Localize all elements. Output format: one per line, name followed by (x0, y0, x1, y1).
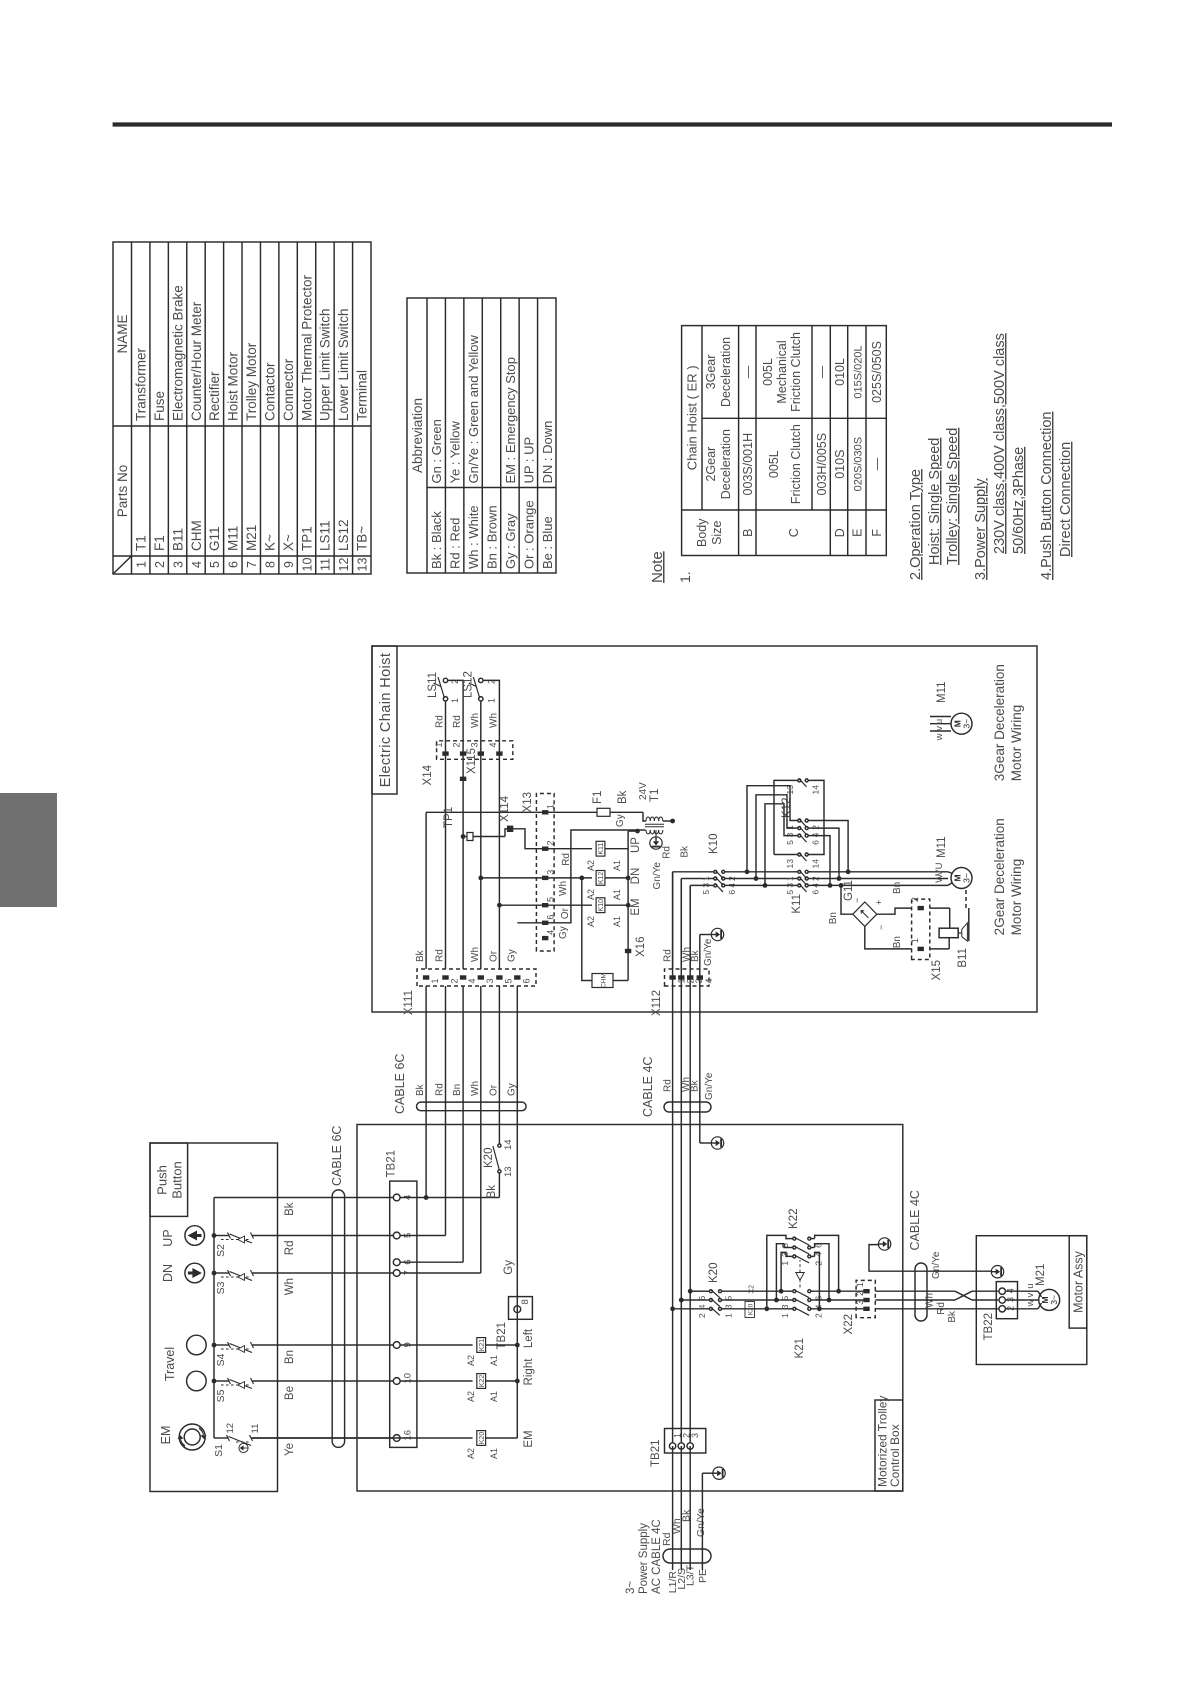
cable 6C capsule marker (332, 1190, 344, 1448)
transformer T1 (643, 812, 646, 821)
svg-text:W: W (934, 874, 945, 883)
svg-text:Rectifier: Rectifier (207, 371, 222, 421)
electric chain hoist enclosure box (372, 646, 1037, 1012)
svg-text:X13: X13 (522, 792, 534, 812)
wire Gy common return bus (516, 986, 518, 1438)
svg-text:Rd: Rd (435, 1083, 446, 1096)
svg-text:3: 3 (855, 1300, 865, 1305)
TB21 terminal 5 (393, 1232, 400, 1239)
svg-text:UP: UP (161, 1229, 175, 1246)
svg-text:A1: A1 (612, 916, 622, 927)
svg-text:Gn/Ye: Gn/Ye (652, 862, 663, 890)
svg-text:NAME: NAME (115, 314, 130, 353)
svg-text:50/60Hz,3Phase: 50/60Hz,3Phase (1011, 447, 1027, 554)
svg-text:Trolley: Single Speed: Trolley: Single Speed (945, 428, 961, 565)
svg-text:A1: A1 (612, 889, 622, 900)
svg-text:6: 6 (727, 890, 737, 895)
limit switch LS11 (443, 697, 447, 701)
svg-text:Parts No: Parts No (115, 465, 130, 518)
svg-text:2Gear Deceleration: 2Gear Deceleration (992, 818, 1007, 935)
svg-text:Bn: Bn (284, 1350, 296, 1364)
wire LS11 return (448, 680, 463, 969)
wire Rd TB21-5 to hoist X111-2 (400, 1235, 445, 1237)
svg-text:8: 8 (520, 1299, 531, 1304)
svg-text:2Gear: 2Gear (704, 447, 718, 482)
svg-text:Wh: Wh (470, 1081, 481, 1096)
wire GnYe to hoist ground (699, 935, 701, 987)
svg-text:Be: Be (284, 1386, 296, 1400)
svg-text:3~: 3~ (962, 873, 972, 883)
svg-text:1: 1 (855, 1282, 865, 1287)
svg-text:Deceleration: Deceleration (719, 337, 733, 407)
relay coil K22 (400, 1380, 473, 1382)
svg-text:3: 3 (780, 1304, 790, 1309)
svg-text:12: 12 (225, 1423, 236, 1434)
svg-text:C: C (787, 528, 801, 537)
svg-text:1: 1 (785, 876, 795, 881)
wire Wh TB21-7 to hoist X111-3 (400, 1272, 481, 1274)
wire L2 supply (680, 1446, 682, 1570)
svg-text:2: 2 (814, 1261, 824, 1266)
electromagnetic brake B11 (930, 948, 949, 950)
svg-text:Bn: Bn (892, 936, 903, 948)
svg-text:Right: Right (523, 1358, 535, 1386)
svg-text:Gy: Gy (506, 949, 517, 962)
svg-text:UP: UP (630, 837, 642, 853)
connector X16 pin (625, 949, 631, 953)
svg-text:4: 4 (190, 561, 204, 568)
wires X22 to trolley box bottom (875, 1308, 903, 1310)
svg-text:M11: M11 (226, 526, 241, 551)
svg-text:Wh: Wh (558, 881, 569, 896)
svg-text:Gn/Ye: Gn/Ye (703, 938, 714, 966)
svg-text:2.Operation Type: 2.Operation Type (908, 469, 924, 580)
svg-text:v: v (1025, 1293, 1036, 1298)
svg-text:DN : Down: DN : Down (540, 421, 555, 484)
svg-text:3Gear: 3Gear (704, 355, 718, 390)
svg-text:025S/050S: 025S/050S (870, 341, 884, 403)
svg-text:Deceleration: Deceleration (719, 429, 733, 499)
contactor K22 main contacts (789, 1255, 793, 1257)
svg-text:K20: K20 (483, 1148, 495, 1168)
svg-text:1: 1 (135, 561, 149, 568)
connector X14 (437, 741, 513, 760)
svg-text:v: v (934, 726, 945, 731)
TB21 terminal 10 (393, 1378, 400, 1385)
svg-text:010L: 010L (833, 358, 847, 386)
svg-text:1: 1 (546, 804, 556, 809)
svg-text:X114: X114 (499, 795, 511, 822)
ground hoist cable PE in trolley box (711, 1137, 723, 1149)
svg-text:2: 2 (452, 742, 462, 747)
svg-text:Travel: Travel (163, 1347, 177, 1381)
svg-text:4: 4 (811, 832, 821, 837)
wire Bk push button common (214, 1197, 278, 1199)
terminal strip TB22 (996, 1282, 1017, 1319)
svg-text:Gy : Gray: Gy : Gray (503, 513, 518, 569)
svg-text:5: 5 (701, 890, 711, 895)
push button box enclosure (150, 1143, 278, 1492)
relay coil K10 hoist EM (596, 898, 605, 913)
K12 aux output wiring (812, 780, 824, 854)
svg-text:Gy: Gy (558, 926, 569, 939)
wire TB21-6 to hoist X111-4 (462, 986, 464, 1262)
ground motor cable GnYe in trolley box (878, 1238, 890, 1250)
svg-text:Gn/Ye: Gn/Ye (704, 1072, 715, 1100)
svg-text:3~: 3~ (625, 1581, 637, 1594)
svg-text:Bn: Bn (452, 1084, 463, 1096)
svg-text:Bk: Bk (486, 1185, 498, 1199)
svg-text:5: 5 (546, 897, 556, 902)
K22 output merge wiring (815, 1252, 820, 1309)
svg-text:X115: X115 (466, 748, 478, 774)
svg-text:2: 2 (855, 1291, 865, 1296)
svg-text:Rd: Rd (452, 715, 463, 728)
svg-text:S3: S3 (215, 1281, 227, 1294)
svg-text:TP1: TP1 (443, 807, 455, 828)
svg-text:4: 4 (704, 978, 714, 983)
TB21 terminal 6 (393, 1259, 400, 1266)
svg-text:Chain Hoist ( ER ): Chain Hoist ( ER ) (685, 365, 700, 470)
electric chain hoist label box (372, 646, 397, 794)
svg-text:Fuse: Fuse (152, 391, 167, 421)
svg-text:Ye : Yellow: Ye : Yellow (448, 420, 463, 483)
svg-text:Button: Button (170, 1161, 185, 1199)
svg-text:10: 10 (403, 1373, 414, 1384)
parts table header diagonal (113, 556, 132, 574)
wire G11 to X15-1 left branch (865, 926, 912, 949)
motor cable crossover (903, 1290, 955, 1292)
svg-text:LS12: LS12 (463, 671, 475, 698)
svg-text:Bk: Bk (680, 845, 691, 858)
svg-text:5: 5 (785, 890, 795, 895)
svg-text:TB22: TB22 (983, 1313, 995, 1341)
relay coil K11 hoist up (596, 841, 605, 856)
svg-text:K22: K22 (788, 1209, 800, 1229)
contactor K12 auxiliary contact 13-14 (794, 779, 798, 781)
ground power supply PE (702, 1472, 712, 1474)
svg-text:M21: M21 (1035, 1264, 1047, 1286)
contactor K12 main contacts (794, 835, 798, 837)
svg-text:Lower Limit Switch: Lower Limit Switch (336, 308, 351, 421)
svg-text:3: 3 (485, 978, 495, 983)
svg-text:TB~: TB~ (355, 526, 370, 551)
svg-text:Bn: Bn (828, 912, 839, 924)
svg-text:Counter/Hour Meter: Counter/Hour Meter (189, 301, 204, 421)
svg-text:Gn/Ye: Gn/Ye (931, 1251, 942, 1279)
svg-text:3: 3 (690, 1433, 700, 1438)
coil common return bus (627, 831, 629, 980)
svg-text:S5: S5 (215, 1389, 227, 1402)
switch S2 up contact (214, 1235, 229, 1237)
svg-text:X2: X2 (749, 1285, 756, 1294)
svg-text:24V: 24V (638, 782, 649, 800)
svg-text:K22: K22 (479, 1375, 486, 1388)
svg-text:3: 3 (785, 832, 795, 837)
svg-text:X112: X112 (651, 990, 663, 1016)
svg-text:3: 3 (171, 561, 185, 568)
svg-text:Body: Body (695, 518, 709, 547)
svg-text:Electromagnetic Brake: Electromagnetic Brake (170, 285, 185, 421)
K11 aux feed wiring (774, 780, 794, 854)
S1 turn-release symbol (239, 1443, 248, 1452)
svg-text:3.Power Supply: 3.Power Supply (973, 478, 989, 580)
push button UP (185, 1226, 205, 1246)
svg-text:10: 10 (300, 558, 314, 572)
svg-text:3Gear Deceleration: 3Gear Deceleration (992, 664, 1007, 781)
svg-text:4.Push Button Connection: 4.Push Button Connection (1039, 412, 1055, 580)
svg-text:A2: A2 (586, 889, 596, 900)
cable 4C motor capsule marker (915, 1263, 927, 1321)
push button label box (150, 1143, 188, 1216)
svg-text:CHM: CHM (189, 520, 204, 551)
wires TB22 to motor M21 (1006, 1290, 1039, 1292)
svg-text:B11: B11 (170, 528, 185, 551)
svg-text:5: 5 (208, 561, 222, 568)
svg-text:3: 3 (701, 883, 711, 888)
svg-text:A1: A1 (489, 1355, 499, 1366)
svg-text:K10: K10 (708, 834, 720, 854)
svg-text:6: 6 (546, 915, 556, 920)
svg-text:—: — (870, 457, 884, 470)
svg-text:4: 4 (697, 1304, 707, 1309)
svg-text:A1: A1 (489, 1448, 499, 1459)
svg-text:CABLE 4C: CABLE 4C (641, 1057, 655, 1117)
svg-text:4: 4 (488, 742, 498, 747)
svg-text:CABLE 6C: CABLE 6C (393, 1054, 407, 1114)
hoist motor M11 2gear (951, 868, 972, 889)
switch S3 down contact (214, 1272, 229, 1274)
svg-text:A2: A2 (466, 1355, 476, 1366)
svg-text:230V class,400V class,500V cla: 230V class,400V class,500V class (992, 333, 1008, 554)
relay coil K20 (252, 1437, 472, 1439)
svg-text:DN: DN (161, 1264, 175, 1282)
svg-text:Or: Or (488, 950, 499, 962)
svg-text:1: 1 (434, 742, 444, 747)
TB21 terminal 4 (393, 1194, 400, 1201)
svg-text:Gn/Ye : Green and Yellow: Gn/Ye : Green and Yellow (466, 334, 481, 483)
connector X13 (536, 794, 554, 952)
svg-text:+: + (874, 900, 884, 905)
svg-text:1: 1 (487, 698, 497, 703)
wires K11 to hoist motor M11 (812, 884, 948, 886)
svg-text:E: E (851, 529, 865, 537)
svg-text:X14: X14 (422, 764, 434, 785)
svg-text:X22: X22 (843, 1314, 855, 1334)
svg-text:Abbreviation: Abbreviation (410, 398, 425, 473)
svg-text:13: 13 (785, 859, 795, 869)
svg-text:Wh: Wh (470, 947, 481, 962)
svg-text:2: 2 (153, 561, 167, 568)
chain hoist (ER) table (682, 326, 887, 556)
wires K20 to K21 (725, 1308, 789, 1310)
svg-text:Ye: Ye (284, 1443, 296, 1456)
parts table (113, 242, 371, 574)
TB21 terminal 9 (393, 1342, 400, 1349)
svg-text:12: 12 (337, 558, 351, 572)
svg-text:Bn: Bn (892, 882, 903, 894)
svg-text:A1: A1 (489, 1391, 499, 1402)
wire PE supply (701, 1473, 703, 1570)
ac supply cable capsule (663, 1549, 711, 1563)
svg-text:F1: F1 (152, 535, 167, 551)
svg-text:F: F (870, 529, 884, 537)
svg-text:5: 5 (503, 978, 513, 983)
K20 auxiliary contact 13-14 (498, 1173, 500, 1198)
svg-text:Gn : Green: Gn : Green (429, 419, 444, 483)
svg-text:Gy: Gy (615, 814, 626, 827)
svg-text:S1: S1 (213, 1444, 225, 1457)
svg-text:14: 14 (503, 1139, 514, 1150)
svg-text:Note: Note (649, 551, 666, 583)
svg-text:Gy: Gy (506, 1083, 517, 1096)
svg-text:010S: 010S (833, 450, 847, 479)
svg-text:PE: PE (697, 1569, 709, 1583)
wires into TB21 terminals (357, 1197, 393, 1199)
svg-text:EM: EM (523, 1430, 535, 1447)
svg-text:Transformer: Transformer (134, 347, 149, 421)
limit switch LS12 (479, 697, 483, 701)
svg-text:6: 6 (697, 1295, 707, 1300)
connector X15 (912, 899, 930, 959)
svg-text:1: 1 (910, 938, 920, 943)
svg-text:1: 1 (701, 876, 711, 881)
svg-text:Size: Size (710, 521, 724, 545)
svg-text:Trolley Motor: Trolley Motor (244, 342, 259, 421)
svg-text:X111: X111 (403, 990, 415, 1015)
svg-text:6: 6 (811, 840, 821, 845)
svg-text:13: 13 (503, 1166, 514, 1177)
ground transformer secondary (650, 837, 662, 849)
K12 input crossover wiring (745, 869, 750, 874)
page header rule (113, 122, 1112, 126)
svg-text:U: U (934, 862, 945, 869)
wire Bk TB21-4 to hoist X111-1 (400, 1197, 499, 1199)
svg-text:2: 2 (814, 1313, 824, 1318)
svg-text:Mechanical: Mechanical (775, 340, 789, 403)
terminal strip TB21 (390, 1181, 417, 1447)
connector X111 (417, 969, 536, 986)
connector X112 (665, 969, 710, 986)
svg-text:−: − (852, 898, 862, 903)
svg-text:K21: K21 (479, 1339, 486, 1352)
svg-text:M11: M11 (936, 836, 948, 858)
svg-text:Motor Assy: Motor Assy (1072, 1250, 1086, 1313)
svg-text:Bk: Bk (415, 1083, 426, 1096)
contactor K20 main contacts (670, 1306, 675, 1311)
svg-text:D: D (833, 528, 847, 537)
transformer primary to Rd phase (663, 820, 673, 822)
svg-text:Rd : Red: Rd : Red (448, 518, 463, 569)
counter hour meter CHM (592, 974, 613, 988)
svg-text:CABLE 6C: CABLE 6C (330, 1126, 344, 1186)
abbreviation table (407, 298, 556, 573)
wire GnYe capsule to hoist X112-4 (699, 986, 701, 1102)
svg-text:S2: S2 (215, 1244, 227, 1257)
svg-text:3: 3 (469, 742, 479, 747)
svg-text:14: 14 (811, 785, 821, 795)
svg-text:1: 1 (430, 978, 440, 983)
push button travel right (187, 1335, 207, 1355)
svg-text:005L: 005L (761, 358, 775, 386)
svg-text:w: w (934, 733, 945, 741)
wire Gy to transformer (517, 830, 645, 923)
svg-text:X16: X16 (635, 937, 647, 957)
svg-text:8: 8 (263, 561, 277, 568)
svg-text:Be : Blue: Be : Blue (540, 516, 555, 569)
svg-text:Connector: Connector (281, 358, 296, 421)
push button travel left (187, 1371, 207, 1391)
svg-text:6: 6 (521, 978, 531, 983)
motor assy label box (1069, 1236, 1087, 1328)
svg-text:Electric Chain Hoist: Electric Chain Hoist (378, 653, 394, 788)
contactor K11 main contacts (794, 884, 798, 886)
svg-text:TP1: TP1 (299, 526, 314, 551)
svg-text:Gy: Gy (503, 1260, 515, 1275)
svg-text:EM : Emergency Stop: EM : Emergency Stop (503, 357, 518, 483)
connector X115 pin (460, 777, 466, 781)
svg-text:EM: EM (159, 1426, 173, 1445)
svg-text:X~: X~ (281, 534, 296, 551)
svg-text:LS11: LS11 (318, 520, 333, 551)
svg-text:005L: 005L (767, 450, 781, 478)
svg-text:K11: K11 (598, 843, 605, 855)
cable 6C trolley-hoist capsule (417, 1102, 527, 1111)
wire L1 supply (672, 1446, 674, 1570)
svg-text:1: 1 (780, 1313, 790, 1318)
svg-text:CABLE 4C: CABLE 4C (908, 1190, 922, 1250)
svg-text:A1: A1 (612, 860, 622, 871)
wire Bk control bus (425, 812, 427, 969)
motorized trolley control box enclosure (357, 1125, 903, 1492)
svg-text:Direct Connection: Direct Connection (1058, 442, 1074, 557)
svg-text:11: 11 (250, 1424, 261, 1434)
svg-text:003H/005S: 003H/005S (815, 433, 829, 496)
mechanical interlock K21-K22 dashed (799, 1281, 801, 1288)
svg-text:K~: K~ (262, 534, 277, 551)
push button DN (185, 1263, 205, 1283)
svg-text:LS11: LS11 (427, 672, 439, 698)
svg-text:Contactor: Contactor (262, 362, 277, 421)
terminal box TB21 power (665, 1429, 706, 1454)
svg-text:Motor Wiring: Motor Wiring (1009, 705, 1024, 782)
svg-text:6: 6 (811, 890, 821, 895)
power wires TB21 to trolley box edge and hoist (672, 872, 674, 1443)
svg-text:u: u (934, 719, 945, 724)
terminal box TB21-8 (509, 1297, 533, 1320)
contactor K11 auxiliary contact 13-14 (774, 854, 794, 856)
svg-text:T1: T1 (134, 535, 149, 551)
svg-text:14: 14 (811, 859, 821, 869)
switch S1 emergency stop contact (214, 1437, 228, 1439)
svg-text:Hoist: Single Speed: Hoist: Single Speed (927, 438, 943, 565)
page edge gray tab (0, 793, 57, 907)
contactor K10 main contacts (710, 884, 714, 886)
svg-text:S4: S4 (215, 1353, 227, 1366)
svg-text:Wh : White: Wh : White (466, 505, 481, 569)
switch S5 travel contact (214, 1380, 229, 1382)
rectifier G11 bridge (839, 883, 844, 888)
switch S4 travel contact (214, 1344, 229, 1346)
wire GnYe motor ground link (869, 1245, 992, 1272)
svg-text:—: — (815, 365, 829, 378)
wire LS12 return (483, 680, 499, 969)
svg-text:6: 6 (227, 561, 241, 568)
svg-text:TB21: TB21 (386, 1150, 398, 1178)
svg-text:A2: A2 (466, 1391, 476, 1402)
svg-text:Motor Wiring: Motor Wiring (1009, 859, 1024, 936)
svg-text:EM: EM (630, 898, 642, 915)
